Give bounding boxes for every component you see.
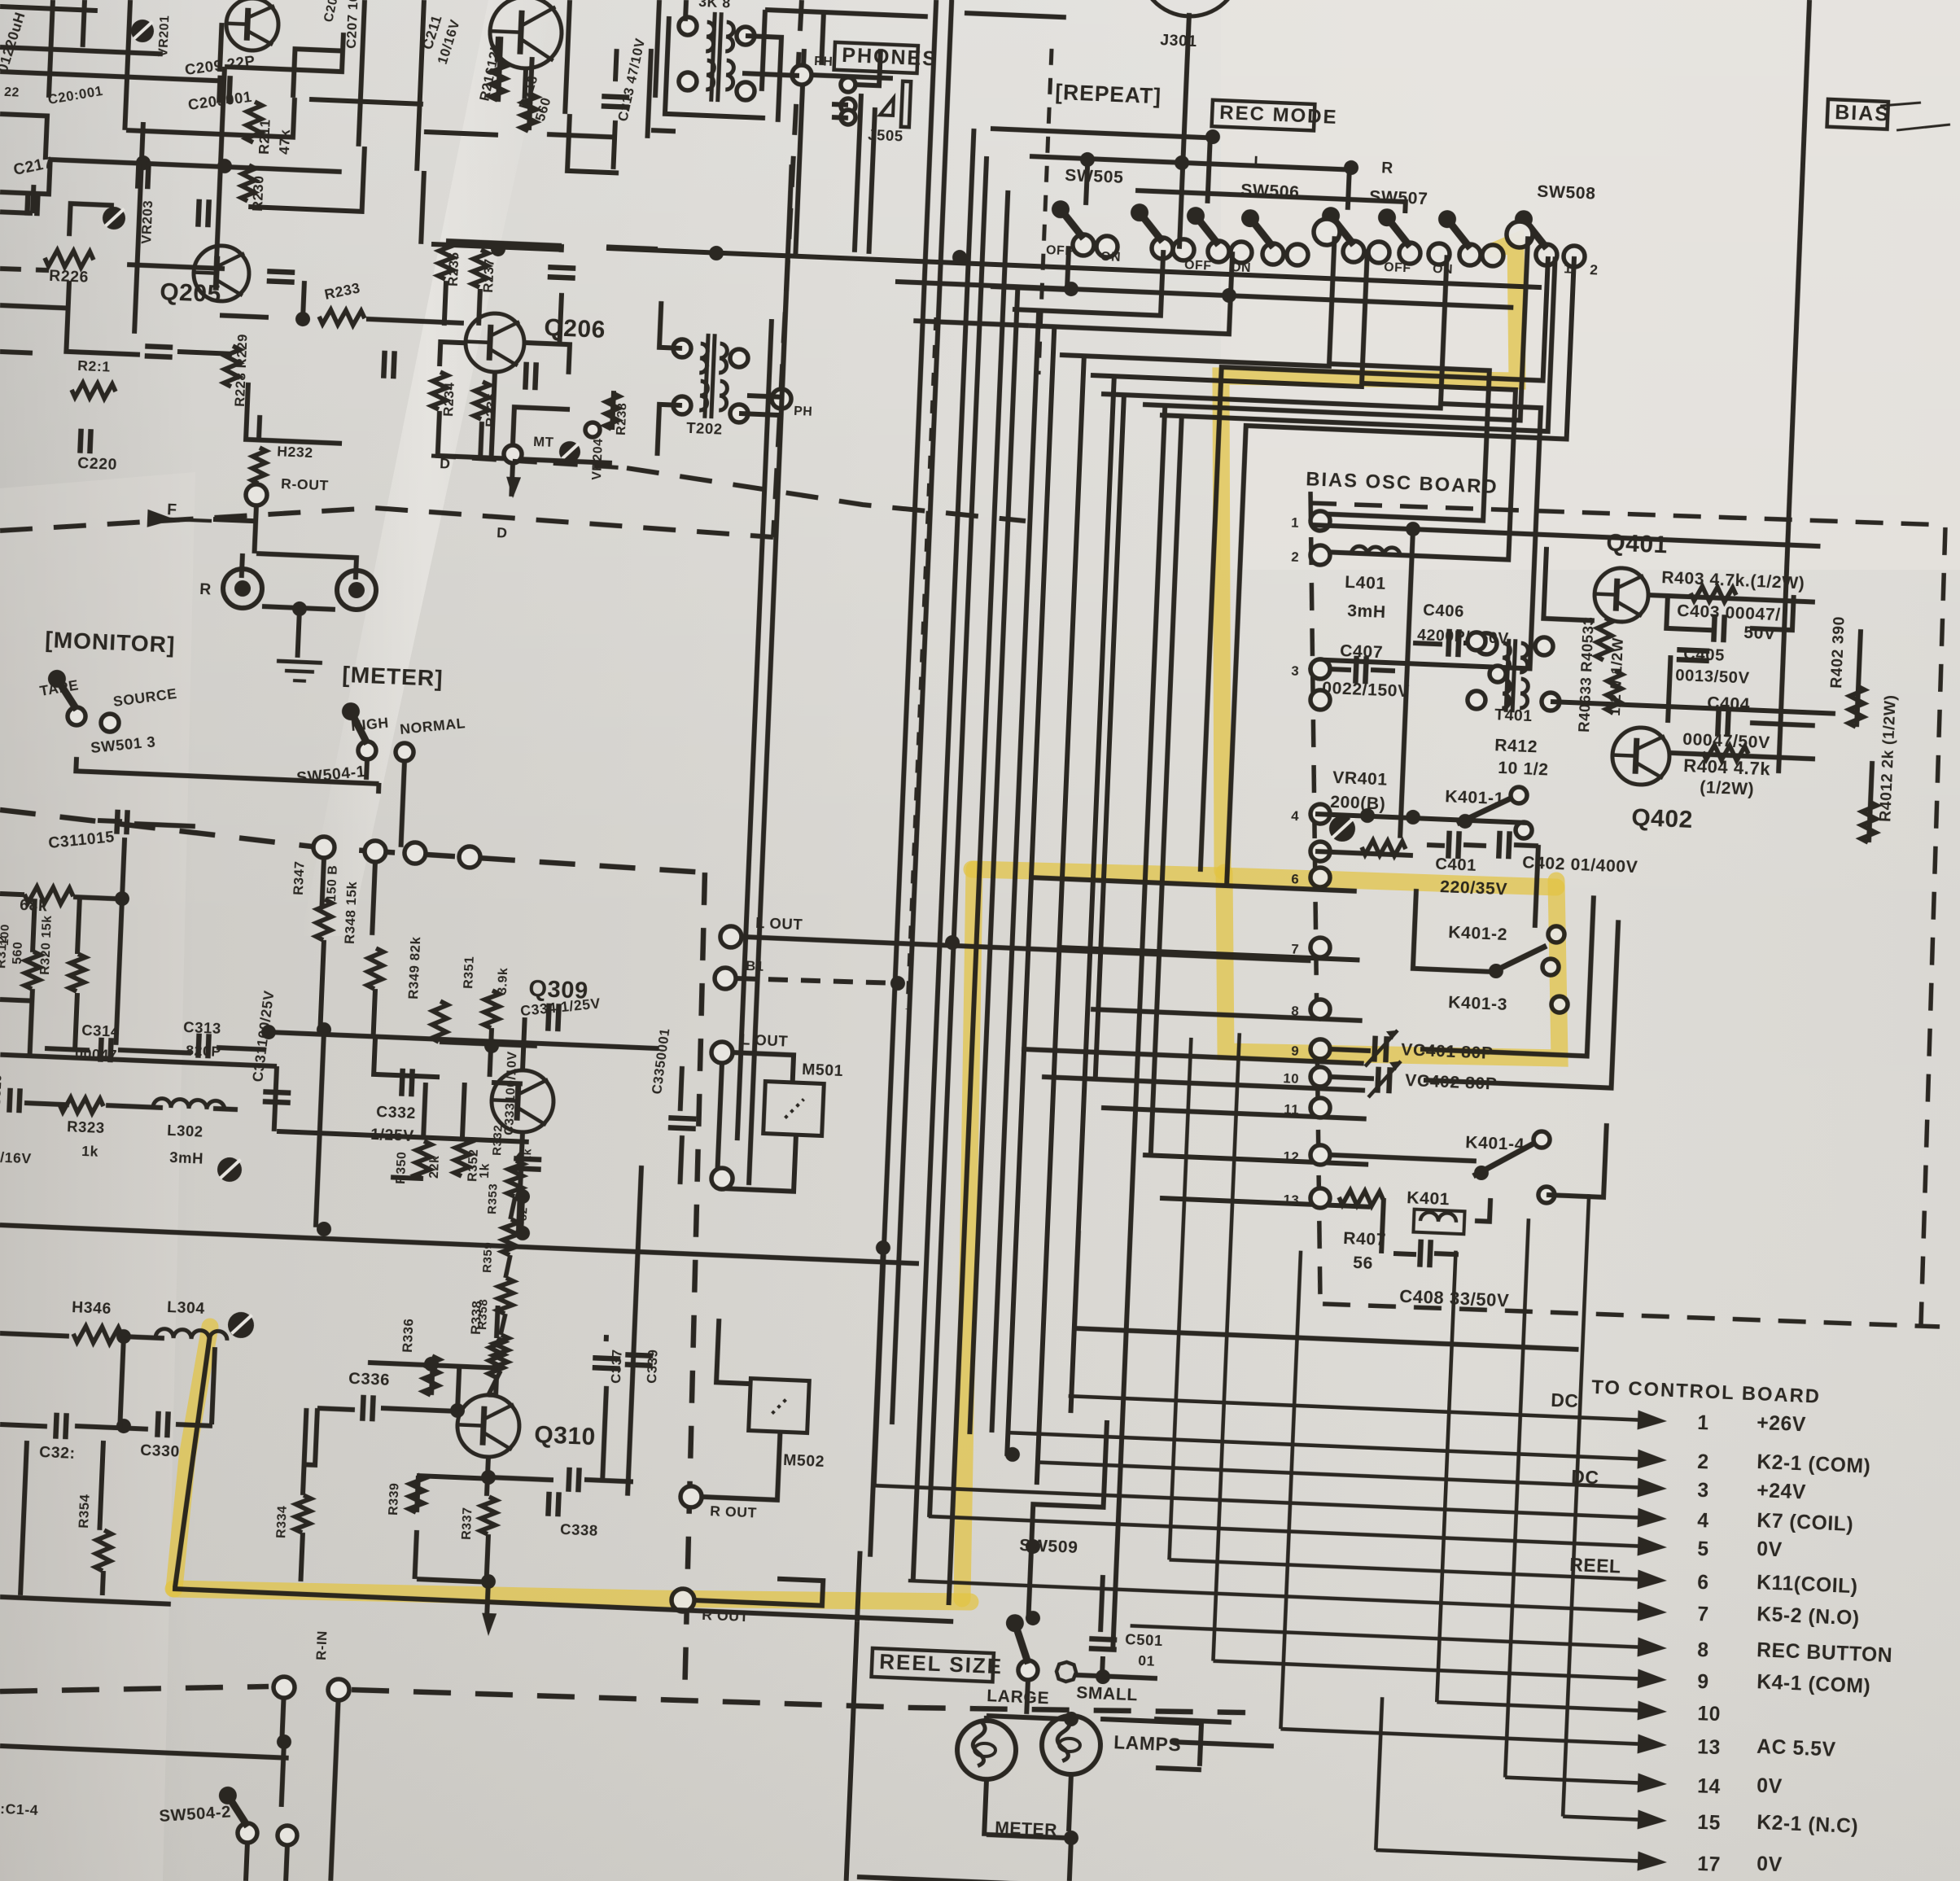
resistor R354 [95,1530,112,1572]
svg-text:R238: R238 [615,402,630,435]
switch SW505 [1072,234,1094,256]
resistor R211 [246,102,262,143]
svg-text:L OUT: L OUT [741,1030,789,1049]
capacitor C332 [401,1069,402,1096]
wire yellow R OUT horizontal [173,1589,953,1621]
svg-text:C32:: C32: [39,1443,76,1463]
svg-text:3mH: 3mH [169,1148,204,1167]
svg-text:REEL: REEL [1569,1554,1621,1577]
svg-text:10: 10 [1697,1703,1722,1726]
wires: K401-2 region [1535,845,1538,928]
svg-text:3K 8: 3K 8 [698,0,731,11]
wires: nested bus below switches [991,243,1069,290]
svg-text:10: 10 [1283,1070,1300,1087]
svg-text:C407: C407 [1340,641,1384,662]
wire bundle: center trunk verticals [874,0,937,1486]
svg-text:K2-1 (N.C): K2-1 (N.C) [1757,1812,1859,1838]
resistor R228 R229 [224,346,240,387]
svg-text:L302: L302 [167,1122,203,1140]
wire: SW508 highlighted run [1201,243,1548,885]
svg-text:DC: DC [1571,1466,1599,1488]
svg-text:D: D [497,524,508,541]
resistor R403 [1691,586,1737,602]
REEL SIZE label [872,1648,994,1682]
resistor R237 [472,250,488,288]
svg-text:01: 01 [1138,1652,1156,1669]
svg-text:M501: M501 [802,1061,844,1080]
svg-text:METER: METER [995,1818,1058,1839]
switch SW509 [1017,1660,1038,1680]
svg-text:12: 12 [1283,1148,1300,1165]
right side rails to lamps [1154,1719,1232,1722]
resistor R234 [431,372,448,410]
transistor Q401 [1594,567,1650,623]
dashed companion verticals in trunk [1038,49,1052,374]
svg-text:1: 1 [1291,515,1300,531]
svg-text:5: 5 [1697,1538,1709,1561]
phone jack J505 [841,77,856,93]
svg-text:K5-2 (N.O): K5-2 (N.O) [1757,1603,1860,1629]
wire: bias top rail [1312,525,1820,546]
resistor R407 [1339,1190,1384,1206]
wire L OUT long [742,937,1310,960]
resistor R233 [319,309,365,326]
svg-text:14: 14 [1697,1775,1722,1798]
BIAS label [1827,99,1888,129]
highlighter trace: SW508 to bias pin 6 [1221,242,1517,871]
capacitor C401 [1448,831,1449,859]
resistor R218b [521,94,537,132]
svg-text:PH: PH [794,405,813,419]
resistor R352 [454,1139,470,1177]
svg-text:OFF: OFF [1384,260,1411,275]
svg-text:SW509: SW509 [1019,1536,1078,1557]
capacitor C336 [362,1395,363,1421]
jack R-OUT node [245,483,267,505]
node R OUT mid [680,1485,702,1507]
faint marks top right [1880,101,1921,107]
svg-text:56: 56 [1353,1253,1374,1273]
resistor R226 [45,250,94,268]
svg-text:SMALL: SMALL [1076,1683,1139,1704]
top-left wires [0,7,98,11]
svg-text:R348 15k: R348 15k [342,881,360,944]
svg-text:C406: C406 [1423,601,1465,621]
capacitor C405 [1677,650,1709,651]
svg-text:R351: R351 [462,956,477,989]
VR203 pot [102,206,125,230]
trimmer VC401 [1374,1036,1375,1062]
svg-text:H232: H232 [277,443,313,461]
capacitor C339 rail [628,1166,641,1496]
svg-text:R412: R412 [1494,736,1538,756]
resistors R405 R406 [1596,618,1612,661]
switch SW507 R [1342,240,1364,262]
arrow D [505,477,521,499]
capacitor C223 [267,271,295,272]
svg-text:SW508: SW508 [1537,182,1596,203]
svg-text:15: 15 [1697,1812,1722,1835]
node R OUT lower [671,1588,694,1612]
svg-text:L OUT: L OUT [755,914,803,933]
capacitor C222 [198,199,199,227]
svg-text:3: 3 [1291,663,1300,679]
svg-text:H346: H346 [72,1298,112,1318]
resistor R336 [423,1356,440,1396]
wires Q310 [431,1363,433,1395]
svg-text:2: 2 [1291,549,1300,565]
svg-text:220/35V: 220/35V [1440,877,1508,899]
svg-text:PHONES: PHONES [842,44,938,71]
wires: J505 drops [855,94,861,252]
transistor Q205 [193,245,251,303]
svg-text:4: 4 [1291,808,1300,824]
node MT [504,445,523,464]
svg-text:0V: 0V [1757,1538,1783,1561]
svg-text:C339: C339 [644,1349,661,1384]
svg-text:R: R [199,580,212,599]
svg-text:10 1/2: 10 1/2 [1498,759,1549,780]
capacitor C337 [593,1358,620,1358]
capacitor C338 [548,1492,549,1516]
node L OUT upper [720,925,742,947]
svg-text:T401: T401 [1494,706,1533,725]
svg-text:R338: R338 [468,1300,485,1335]
svg-text:8: 8 [1291,1004,1300,1019]
wires to jacks [254,505,256,553]
svg-text:C313: C313 [183,1018,221,1037]
dashed REC PB board edge [0,810,707,873]
capacitor C224 [383,351,384,378]
svg-text:OFF: OFF [1184,258,1212,273]
inductor L304 [155,1328,227,1341]
wire: VR row [1315,814,1527,823]
svg-text:C220: C220 [77,454,118,474]
PH node [792,65,812,85]
svg-text:LARGE: LARGE [987,1686,1050,1708]
svg-text:K401-3: K401-3 [1448,993,1508,1014]
dashed separator top-left [0,268,49,270]
svg-text:9: 9 [1291,1043,1300,1059]
transistor Q206 [465,313,526,374]
svg-text:7: 7 [1291,942,1300,957]
svg-text::C1-4: :C1-4 [0,1800,39,1818]
svg-text:(1/2W): (1/2W) [1700,778,1755,799]
svg-text:/16V: /16V [0,1149,32,1167]
PHONES label [834,42,918,73]
svg-text:R354: R354 [76,1494,93,1529]
svg-text:VR203: VR203 [138,199,155,244]
svg-text:Q402: Q402 [1631,804,1694,833]
svg-text:100: 100 [0,924,12,946]
svg-text:3.9k: 3.9k [496,967,510,995]
svg-text:DC: DC [1551,1389,1579,1411]
capacitor C221 [145,346,173,347]
svg-text:L304: L304 [167,1298,205,1318]
svg-text:MT: MT [533,434,554,450]
highlighter trace: K401 loop [1224,873,1560,1058]
ground arrow [487,1581,488,1614]
highlighter trace: R OUT row [173,1589,970,1602]
svg-text:Q206: Q206 [544,314,606,343]
highlighter trace: left riser to L304 [174,1327,210,1589]
capacitor C335 [668,1118,696,1118]
svg-text:Q205: Q205 [160,278,222,308]
svg-text:22k: 22k [427,1155,442,1179]
resistor R351 [483,991,500,1029]
svg-text:150 B: 150 B [325,864,340,902]
capacitor C314 [100,1038,101,1062]
svg-text:K401: K401 [1407,1188,1450,1209]
VR201 pot [130,19,154,42]
node oval B [1506,221,1533,247]
svg-text:0013/50V: 0013/50V [1675,667,1750,688]
trimmer VC402 [1377,1067,1378,1093]
svg-text:C501: C501 [1125,1630,1163,1649]
svg-text:R402 390: R402 390 [1827,616,1848,689]
svg-text:C336: C336 [348,1370,391,1389]
capacitor C404 [1717,709,1718,737]
svg-text:VR401: VR401 [1332,768,1388,790]
wires mid [0,212,33,213]
transistor Q203 partial [488,0,563,70]
svg-text:82: 82 [516,1207,530,1222]
resistor R339 [409,1475,425,1513]
svg-text:2: 2 [1590,261,1599,278]
transformer T201 [711,12,715,102]
wire long to Q309 [269,1032,659,1048]
svg-text:SW505: SW505 [1065,166,1124,187]
lamp wires [1026,1680,1028,1714]
svg-text:L: L [1253,153,1264,172]
svg-text:[METER]: [METER] [342,662,444,691]
svg-text:[REPEAT]: [REPEAT] [1055,80,1162,108]
wires: right nested rows [1320,364,1489,521]
resistor R348 [367,948,383,990]
svg-text:K401-2: K401-2 [1448,923,1508,944]
lamp area box [847,1621,857,1881]
svg-text:2: 2 [1697,1451,1709,1474]
svg-text:B1: B1 [746,958,764,974]
svg-text:9: 9 [1697,1671,1709,1694]
lamp 2 [1040,1715,1101,1776]
lamp 1 [956,1720,1017,1781]
dashed vertical phones board [773,0,802,537]
svg-text:R349 82k: R349 82k [405,936,423,1000]
capacitor C329 [55,1413,56,1439]
capacitor C217 [27,191,28,216]
transistor Q402 [1612,727,1671,786]
svg-text:1k: 1k [81,1143,99,1160]
resistor R402 [1848,686,1865,728]
transistor Q201 partial [225,0,280,51]
resistor R231 [72,383,116,399]
meter M502 [749,1379,810,1433]
wires: extra bottom rows [1074,1328,1578,1350]
dashed vertical board edge mid [670,873,719,1699]
wires topleft extra [0,72,220,81]
svg-text:R334: R334 [274,1505,290,1538]
svg-text:6: 6 [1291,872,1300,887]
resistor R232 [252,448,266,484]
svg-text:R230: R230 [249,175,267,212]
svg-text:ON: ON [1433,262,1454,277]
inductor L302 [153,1098,225,1110]
inductor L401 [1351,546,1400,557]
switch SW508 [1535,244,1557,266]
svg-text:VR204: VR204 [590,438,606,480]
wires Q309 cluster [490,1028,492,1077]
resistor R236 [474,382,490,420]
meter M501 [763,1082,825,1136]
resistor R235 [438,242,454,280]
node L OUT lower [711,1041,733,1063]
resistor R230 [241,165,256,202]
svg-text:C405: C405 [1683,645,1726,665]
svg-text:AC 5.5V: AC 5.5V [1757,1736,1836,1761]
svg-text:Q401: Q401 [1606,529,1669,558]
svg-text:47k: 47k [276,129,293,155]
dashed bottom long [0,1675,269,1703]
capacitor C225 [525,362,526,390]
wire: J301 drop [1179,13,1189,249]
wire under yellow riser [175,1334,210,1588]
svg-text:R332: R332 [490,1124,505,1156]
capacitor C333 [514,1158,541,1159]
svg-text:ON: ON [1100,250,1122,265]
wires: VC rows [1420,889,1594,1056]
transformer T202 [705,334,708,418]
wires: verticals left of trunk [749,254,788,1185]
svg-text:R347: R347 [291,860,308,895]
highlighter trace: pin6 row horizontal [972,869,1556,887]
svg-text:R2:1: R2:1 [77,357,111,375]
wires left edge [0,995,2,1000]
svg-text:Q310: Q310 [534,1421,597,1450]
svg-text:17: 17 [1697,1853,1722,1876]
transformer T401 [1506,639,1509,712]
wire: bias vertical [1400,529,1413,838]
transistor Q309 [490,1069,554,1133]
svg-text:4200P/250V: 4200P/250V [1417,626,1509,648]
resistor chain R352 R353 R359 R358 [507,1161,523,1197]
vertical to SW504-2 [282,1689,284,1742]
svg-text:+26V: +26V [1757,1412,1807,1437]
svg-text:200(B): 200(B) [1330,793,1386,814]
resistor R323 [59,1097,104,1113]
capacitor C408 [1420,1240,1420,1267]
svg-text:J301: J301 [1160,31,1197,50]
svg-text:1: 1 [1697,1412,1709,1435]
svg-text:R OUT: R OUT [710,1503,758,1520]
capacitor C209 [219,76,220,103]
nodes on dashed mid [273,1677,295,1699]
bias board pins [1310,510,1331,531]
svg-text:13: 13 [1283,1192,1300,1208]
svg-text:7: 7 [1697,1603,1709,1626]
resistor R350 [415,1141,431,1179]
svg-text:R320 15k: R320 15k [38,915,55,975]
capacitor C406 [1413,643,1442,645]
wires SW504 [376,783,382,794]
svg-text:6: 6 [1697,1572,1709,1594]
wire left col [20,1441,27,1595]
wire: main horizontal bus to switch row [606,248,1542,287]
wire: second bus under switch row [895,282,1513,308]
board edge nodes [313,836,335,858]
wires: rails above switch row [988,129,1210,203]
resistor R401 [1861,802,1877,843]
BIAS OSC BOARD outline dashed [1276,492,1354,1302]
highlighter trace: trunk down [962,869,974,1599]
capacitor C310 [9,1088,10,1113]
capacitor C226 [548,267,575,268]
svg-text:R353: R353 [485,1183,501,1214]
capacitor C313 [198,1034,199,1058]
svg-text:0022/150V: 0022/150V [1322,679,1410,701]
svg-text:K7 (COIL): K7 (COIL) [1757,1510,1854,1536]
svg-text:11: 11 [1284,1101,1300,1118]
svg-text:R-IN: R-IN [313,1630,330,1660]
wires: feeds to bias board pins [1029,877,1357,891]
svg-text:R336: R336 [400,1318,417,1353]
svg-text:R234: R234 [440,382,457,417]
svg-text:SW507: SW507 [1369,187,1428,208]
connector J301 arc [1137,0,1242,19]
wire SW509 drop [1028,1417,1107,1621]
capacitor C330 [157,1411,158,1437]
svg-text:REEL SIZE: REEL SIZE [879,1649,1004,1678]
wires: Q401 Q402 box [1543,547,1597,621]
switch SW506 L [1151,237,1173,259]
resistor R216 [490,63,506,101]
svg-text:R359: R359 [480,1241,496,1273]
node oval A [1313,218,1340,245]
capacitor C218 [138,161,138,189]
resistor R346 [73,1326,123,1344]
svg-text:R: R [1381,159,1394,177]
wires from nodes [322,858,324,907]
svg-text:R323: R323 [67,1118,105,1136]
wires upper mid [655,0,659,98]
ground [277,661,322,663]
resistor R337 [480,1497,497,1535]
svg-text:C401: C401 [1435,855,1477,875]
VR204 pot [558,440,580,462]
wire lamp to right [1099,1719,1201,1766]
REC MODE label [1212,100,1315,131]
svg-text:3: 3 [1697,1480,1709,1503]
resistor R349 [431,1001,448,1043]
capacitor C213 [602,96,629,97]
PH node lower [772,389,792,409]
resistor R338 [488,1338,505,1378]
svg-text:C338: C338 [560,1520,598,1539]
svg-text:R339: R339 [387,1482,402,1516]
jack R [222,568,263,609]
resistor R238 [605,393,619,430]
capacitor C402 [1498,831,1499,859]
resistor R347 [316,899,332,941]
resistor R404 [1703,745,1749,761]
svg-text:C332: C332 [376,1103,417,1122]
svg-text:22: 22 [4,85,20,100]
node B1 [715,967,737,989]
capacitor C501 [1089,1638,1117,1639]
transistor Q310 [456,1393,520,1458]
control board arrow rows [1069,1396,1654,1420]
wire bottom rail [0,1225,919,1263]
